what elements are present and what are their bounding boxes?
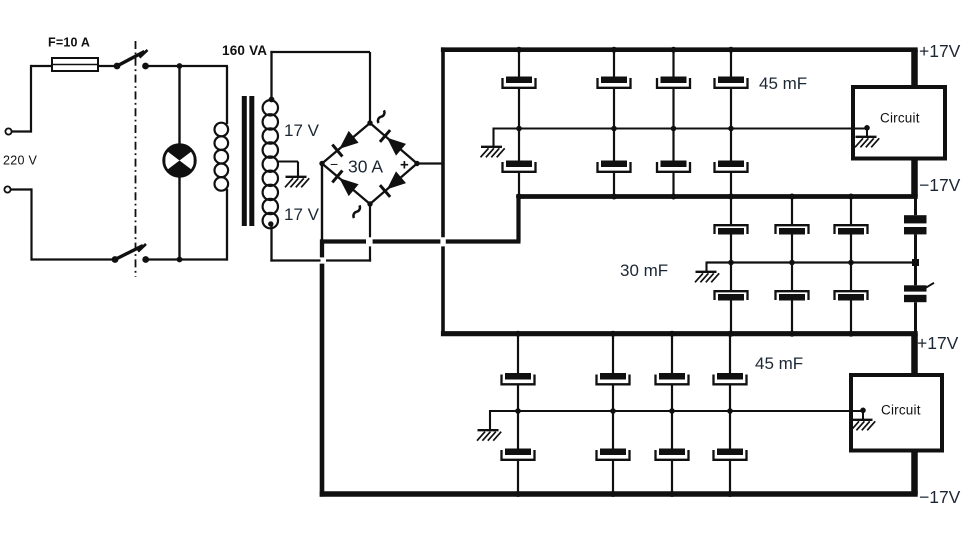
junction xyxy=(515,408,521,414)
junction xyxy=(611,194,617,200)
capacitor C22 (lower 45 mF bank lower) xyxy=(597,449,630,460)
junction xyxy=(516,126,522,132)
terminal: mains input N xyxy=(4,186,10,192)
wire xyxy=(612,334,614,373)
diode D4 xyxy=(380,171,406,197)
wire xyxy=(730,264,732,334)
label +17V xyxy=(919,41,961,61)
wire xyxy=(850,197,852,225)
bus (rail to circuit box 2) xyxy=(911,334,918,376)
capacitor C1 (45 mF bank upper) xyxy=(503,77,536,88)
wire (center tap) xyxy=(278,162,299,177)
junction xyxy=(789,331,795,337)
junction xyxy=(848,194,854,200)
wire (- output) xyxy=(321,164,323,241)
svg-text:+17V: +17V xyxy=(917,333,959,353)
wire (+ output) xyxy=(417,162,442,164)
junction xyxy=(727,491,733,497)
diode D3 xyxy=(332,170,358,196)
label 17 V xyxy=(284,121,320,140)
junction xyxy=(727,408,733,414)
node junction (bridge corners) xyxy=(319,120,419,206)
junction xyxy=(610,331,616,337)
capacitor C7 (45 mF bank lower) xyxy=(657,161,690,172)
wire xyxy=(671,413,673,495)
wire xyxy=(791,197,793,225)
junction xyxy=(727,331,733,337)
bus - feed (horizontal y=241.5) xyxy=(320,239,521,243)
capacitor C11 (30 mF bank upper) xyxy=(835,225,868,234)
junction xyxy=(789,194,795,200)
label −17V xyxy=(919,175,961,195)
bus (circuit box 1 to rail) xyxy=(911,157,918,197)
svg-text:17 V: 17 V xyxy=(284,205,320,224)
junction xyxy=(610,408,616,414)
junction xyxy=(671,126,677,132)
bus -17V (vertical x=322) xyxy=(320,239,324,496)
mechanical link (dash-dot) xyxy=(135,41,137,277)
junction xyxy=(669,408,675,414)
wire xyxy=(791,264,793,334)
wire xyxy=(672,130,674,197)
wire xyxy=(730,130,732,197)
wire xyxy=(729,384,731,411)
wire (midpoint line) xyxy=(494,127,868,129)
ground (center tap) xyxy=(285,177,309,188)
wire xyxy=(518,130,520,197)
junction xyxy=(611,47,617,53)
svg-text:45 mF: 45 mF xyxy=(755,354,803,373)
wire xyxy=(492,128,494,147)
wire xyxy=(517,384,519,411)
node (circuit 2 reference) xyxy=(860,408,866,420)
label 30 A xyxy=(348,157,383,177)
diode D1 xyxy=(332,131,358,157)
ground (inside circuit 1) xyxy=(855,137,879,148)
svg-text:45 mF: 45 mF xyxy=(759,74,807,93)
capacitor C13 (30 mF bank lower) xyxy=(776,291,809,300)
wire xyxy=(11,188,115,260)
wire xyxy=(850,235,852,263)
wire xyxy=(518,50,520,77)
bridge rectifier BR1 (diamond) xyxy=(322,123,417,204)
wire xyxy=(730,88,732,129)
label −17V xyxy=(919,487,961,507)
transformer T1 primary lead xyxy=(226,66,228,124)
capacitor C2 (45 mF bank upper) xyxy=(598,77,631,88)
junction xyxy=(671,47,677,53)
junction xyxy=(177,63,183,69)
junction xyxy=(728,194,734,200)
wire (midpoint line) xyxy=(707,261,917,263)
label + (node plus) xyxy=(400,157,409,174)
circuit box 1 xyxy=(853,87,945,159)
wire xyxy=(914,197,917,216)
capacitor C9 (30 mF bank upper) xyxy=(715,225,748,234)
wire xyxy=(914,234,917,262)
junction xyxy=(728,194,734,200)
wire xyxy=(730,50,732,77)
wire xyxy=(914,302,917,334)
capacitor C15 (right column upper) xyxy=(904,215,927,234)
label 45 mF xyxy=(755,354,803,373)
terminal: mains input L xyxy=(5,128,11,134)
wire xyxy=(671,334,673,373)
capacitor C4 (45 mF bank upper) xyxy=(715,77,748,88)
capacitor C10 (30 mF bank upper) xyxy=(776,225,809,234)
junction xyxy=(848,260,854,266)
transformer T1 secondary lead xyxy=(269,51,275,103)
junction xyxy=(728,126,734,132)
label 160 VA xyxy=(222,43,267,58)
label ~ (AC node bottom) xyxy=(353,205,360,218)
wire xyxy=(12,65,52,133)
capacitor C19 (lower 45 mF bank upper) xyxy=(656,373,689,384)
diode D2 xyxy=(380,130,406,156)
wire xyxy=(914,263,917,286)
wire xyxy=(146,65,229,67)
junction xyxy=(177,257,183,263)
wire xyxy=(729,413,731,495)
junction xyxy=(848,331,854,337)
junction xyxy=(671,194,677,200)
wire xyxy=(489,410,491,430)
label Circuit xyxy=(881,403,921,418)
capacitor C18 (lower 45 mF bank upper) xyxy=(597,373,630,384)
capacitor C8 (45 mF bank lower) xyxy=(715,161,748,172)
rail +17V (top) xyxy=(441,47,918,52)
wire xyxy=(98,65,117,67)
wire xyxy=(270,52,370,124)
wire xyxy=(672,88,674,129)
wire (midpoint line) xyxy=(490,410,863,412)
wire xyxy=(613,130,615,197)
circuit box 2 xyxy=(851,375,942,451)
label 30 mF xyxy=(620,261,668,280)
ground (30 mF bank) xyxy=(695,272,719,283)
svg-text:−: − xyxy=(330,156,338,172)
wire xyxy=(705,262,707,272)
capacitor C3 (45 mF bank upper) xyxy=(657,77,690,88)
capacitor C16 (right column lower) xyxy=(904,283,934,302)
capacitor C12 (30 mF bank lower) xyxy=(715,291,748,300)
svg-text:Circuit: Circuit xyxy=(880,111,920,126)
wire xyxy=(729,334,731,373)
fuse F=10 A xyxy=(52,58,98,71)
wire xyxy=(518,88,520,129)
junction xyxy=(515,491,521,497)
junction xyxy=(611,126,617,132)
lamp H1 lead xyxy=(178,66,180,146)
switch S1 (lower pole) xyxy=(112,244,150,263)
svg-text:Circuit: Circuit xyxy=(881,403,921,418)
transformer T1 primary winding xyxy=(215,123,229,191)
wire xyxy=(517,413,519,495)
junction xyxy=(610,491,616,497)
bus (circuit box 2 to rail) xyxy=(911,449,918,494)
rail -17V (upper) xyxy=(516,194,917,199)
label 220 V xyxy=(3,154,38,168)
junction xyxy=(728,47,734,53)
junction xyxy=(515,331,521,337)
rail +17V (lower) xyxy=(441,331,918,336)
label +17V xyxy=(917,333,959,353)
capacitor C17 (lower 45 mF bank upper) xyxy=(502,373,535,384)
bus +17V (vertical x=443) xyxy=(441,47,445,336)
node (circuit 1 reference) xyxy=(864,125,870,136)
wire xyxy=(612,413,614,495)
junction xyxy=(669,491,675,497)
wire xyxy=(730,235,732,263)
ground (inside circuit 2) xyxy=(851,420,875,431)
junction xyxy=(516,194,522,200)
svg-text:F=10 A: F=10 A xyxy=(48,36,90,50)
svg-text:220 V: 220 V xyxy=(3,154,38,168)
wire xyxy=(672,50,674,77)
junction xyxy=(912,259,919,266)
junction xyxy=(516,47,522,53)
junction xyxy=(669,331,675,337)
svg-text:−17V: −17V xyxy=(919,487,961,507)
svg-text:17 V: 17 V xyxy=(284,121,320,140)
transformer T1 primary lead xyxy=(226,189,228,261)
rail -17V (bottom) xyxy=(320,491,918,497)
bus (rail to circuit box 1) xyxy=(911,50,918,88)
capacitor C14 (30 mF bank lower) xyxy=(835,291,868,300)
transformer T1 secondary lead xyxy=(268,221,273,261)
wire xyxy=(270,204,371,262)
svg-text:−17V: −17V xyxy=(919,175,961,195)
ground (lower 45 mF bank) xyxy=(477,430,501,441)
capacitor C6 (45 mF bank lower) xyxy=(598,161,631,172)
label 45 mF xyxy=(759,74,807,93)
transformer T1 core xyxy=(242,96,255,226)
wire xyxy=(146,258,227,260)
wire xyxy=(613,50,615,77)
svg-text:+17V: +17V xyxy=(919,41,961,61)
capacitor C5 (45 mF bank lower) xyxy=(503,161,536,172)
wire xyxy=(517,334,519,373)
wire xyxy=(613,88,615,129)
transformer T1 secondary winding xyxy=(263,100,278,228)
wire xyxy=(730,197,732,225)
label F=10 A xyxy=(48,36,90,50)
capacitor C20 (lower 45 mF bank upper) xyxy=(714,373,747,384)
wire xyxy=(612,384,614,411)
svg-text:160 VA: 160 VA xyxy=(222,43,267,58)
svg-text:30 A: 30 A xyxy=(348,157,383,177)
junction xyxy=(728,260,734,266)
junction xyxy=(789,260,795,266)
capacitor C21 (lower 45 mF bank lower) xyxy=(502,449,535,460)
lamp H1 (indicator) xyxy=(164,145,196,177)
wire xyxy=(671,384,673,411)
label - (node minus) xyxy=(330,156,338,172)
label ~ (AC node top) xyxy=(378,110,385,123)
bus - riser (x=518.5) xyxy=(516,194,520,241)
wire xyxy=(850,264,852,334)
switch S1 (upper pole) xyxy=(114,50,149,69)
svg-text:+: + xyxy=(400,157,409,174)
svg-text:30 mF: 30 mF xyxy=(620,261,668,280)
capacitor C23 (lower 45 mF bank lower) xyxy=(656,449,689,460)
label 17 V xyxy=(284,205,320,224)
ground (45 mF bank) xyxy=(481,147,505,158)
junction xyxy=(728,331,734,337)
capacitor C24 (lower 45 mF bank lower) xyxy=(714,449,747,460)
wire xyxy=(791,235,793,263)
lamp H1 lead xyxy=(178,176,180,260)
label Circuit xyxy=(880,111,920,126)
